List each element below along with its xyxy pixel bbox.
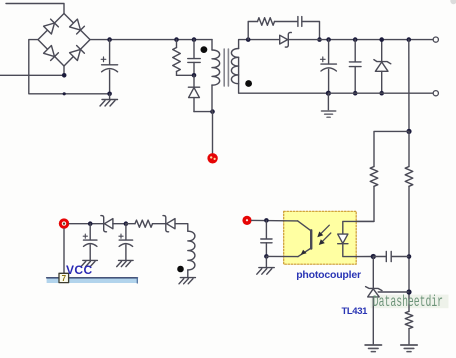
wire secondary bottom to output rail [239,57,329,93]
wire snubber down-right [302,22,320,40]
TL431 shunt regulator [366,287,382,345]
diode VCC D2 (schottky, cathode left) [163,216,175,232]
wire FB to opto collector [252,219,298,222]
terminal output positive [433,37,438,42]
wire bridge negative return [29,40,110,94]
node opto emitter / cap bottom [264,254,269,259]
ground output (earth bars) [322,93,336,117]
diode secondary rectifier [280,32,292,47]
node output elco top [326,37,331,42]
resistor snubber R [258,18,275,26]
wire switch node down [212,112,214,154]
wire AC input top [6,4,64,14]
corner artifact [450,0,456,4]
aux polarity dot [177,266,184,273]
diode VCC D1 (schottky, cathode left) [101,216,126,232]
resistor clamp R [173,40,181,76]
secondary polarity dot [245,80,252,87]
resistor VCC R [135,220,153,227]
capacitor clamp C [188,40,200,76]
wire snubber up-left [248,22,257,40]
node bulk cap bottom [107,92,112,97]
node opto input cap top [264,218,269,223]
node comp cap right [407,254,412,259]
ground VCC C1 [81,260,97,266]
wire resistor to diode2 [153,223,166,225]
wire bridge bottom stem [63,66,65,75]
capacitor opto input [261,220,272,256]
ground opto input [257,256,274,274]
wire primary top lead [211,40,213,50]
wire cap2 to resistor [126,223,135,225]
inductor aux winding [188,231,195,270]
bridge diode D2 upper-right [70,19,85,34]
svg-text:VCC: VCC [66,263,93,277]
pin 7 box [59,273,69,283]
node primary bottom [210,109,215,114]
opto phototransistor Q [266,221,311,257]
wire right branch down [408,131,410,166]
ground VCC C2 [117,260,133,266]
IC edge bar [47,278,138,283]
bridge diode D4 lower-right [70,46,85,61]
marker FB node (red) [242,216,251,225]
node zener top [379,37,384,42]
transformer T1 core [224,49,228,86]
wire split to left branch [374,131,409,166]
node clamp bottom [192,73,197,78]
wire TL431 ref to divider [378,291,409,293]
wire clamp to switch node [194,111,213,113]
wire VCC node to pin 7 [63,229,65,274]
wire LED branch down [356,186,374,221]
opto light arrows [317,225,331,245]
capacitor snubber C [298,17,302,27]
resistor divider upper R [405,167,413,187]
marker drain node (red) [207,153,217,163]
svg-text:TL431: TL431 [342,306,369,317]
wire LED cathode to TL431 [356,256,373,258]
ground bulk cap [100,94,118,106]
node TL431 cathode [371,254,376,259]
wire snubber mid [275,21,298,23]
photocoupler body box [284,211,357,264]
node feedback tap on +rail [407,37,412,42]
diode clamp (cathode up) [188,75,199,111]
watermark background [371,295,449,309]
ground divider (earth bars) [401,345,417,352]
capacitor bulk electrolytic [101,40,117,94]
ground TL431 (earth bars) [365,345,381,352]
node negative rail tick [63,92,66,95]
ground aux winding [179,278,195,284]
resistor LED bias R [370,167,378,187]
node TL431 ref [406,289,411,294]
capacitor VCC C1 electrolytic [83,224,97,261]
zener output [374,40,391,94]
bridge diode D3 lower-left [44,46,59,61]
wire clamp bottom link [177,74,195,76]
wire divider to ground [408,329,410,345]
capacitor output electrolytic [321,40,337,94]
wire bridge positive to rail [90,39,212,41]
wire feedback drop [408,40,410,132]
svg-text:Datasheetdir: Datasheetdir [373,293,443,311]
wire diode2 to aux winding [175,224,188,232]
capacitor output ceramic [349,40,361,94]
wire divider mid [408,186,410,311]
node zener bottom [379,91,384,96]
svg-text:photocoupler: photocoupler [296,269,361,281]
node output cap2 bottom [353,91,358,96]
wire TL431 cathode down [372,257,374,288]
wire VCC node right [69,223,103,225]
resistor divider lower R [405,311,413,328]
wire AC input bottom [0,74,64,76]
node VCC cap1 top [88,221,93,226]
node clamp R top [174,37,179,42]
wire comp cap right [391,256,409,258]
bridge diode D1 upper-left [44,19,59,34]
transformer T1 primary winding [212,50,220,85]
wire output negative rail [328,92,433,94]
node bulk cap top [107,37,112,42]
node output cap2 top [353,37,358,42]
node output elco bottom / ground [326,91,331,96]
bridge rectifier diamond [38,14,90,67]
wire output positive rail [288,39,433,41]
wire comp cap left [373,256,386,258]
marker VCC node (red ring) [59,218,69,228]
node snubber tap [246,37,251,42]
node rect out / snubber return [317,37,322,42]
opto LED D [338,221,357,256]
wire secondary top lead [239,40,280,49]
node AC-bottom junction [62,73,67,78]
capacitor compensation [386,251,391,261]
node clamp C top [192,37,197,42]
terminal output negative [433,91,438,96]
wire LED anode from divider branch [356,220,374,222]
node feedback split [406,129,411,134]
capacitor VCC C2 electrolytic [119,224,133,261]
wire aux to ground [187,270,189,278]
node VCC cap2 top [124,221,129,226]
primary polarity dot [201,46,208,53]
transformer T1 secondary winding [231,49,238,84]
wire primary bottom lead [211,85,213,112]
